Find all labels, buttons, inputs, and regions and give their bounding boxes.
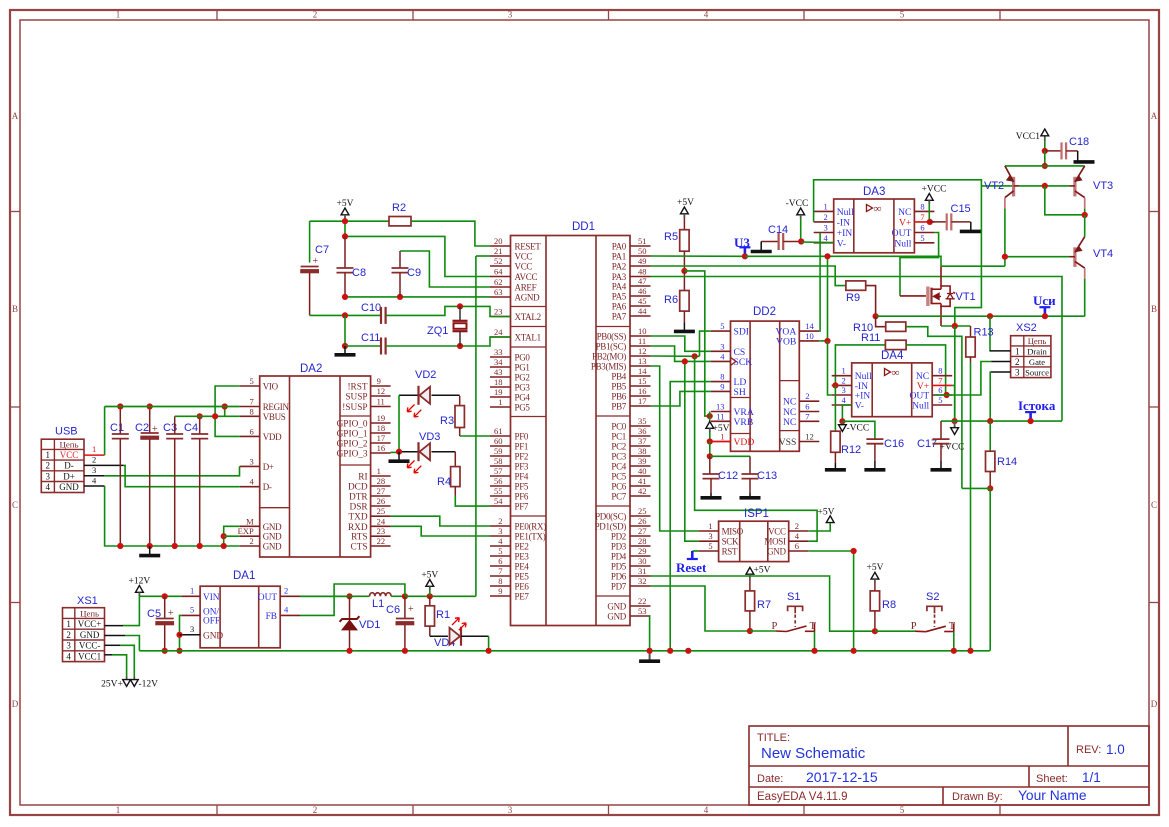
svg-text:62: 62 — [494, 277, 503, 287]
svg-text:4: 4 — [66, 651, 71, 661]
svg-text:∞: ∞ — [874, 203, 882, 215]
power VCC1 — [1041, 129, 1049, 136]
svg-text:C7: C7 — [315, 244, 329, 256]
DD1 pin 37 PC2 — [630, 445, 651, 447]
svg-text:GND: GND — [59, 482, 79, 492]
svg-text:FB: FB — [266, 612, 277, 622]
svg-text:U3: U3 — [734, 235, 750, 250]
DD1 pin 49 PA2 — [630, 265, 651, 267]
svg-text:27: 27 — [638, 526, 647, 536]
DA2 pin 27 DTR — [371, 495, 391, 497]
svg-text:VBUS: VBUS — [263, 412, 286, 422]
svg-text:2: 2 — [498, 516, 502, 526]
VBUS rail — [175, 415, 225, 417]
svg-text:PD0(SC): PD0(SC) — [595, 512, 626, 522]
wire VT3 collector to VT4 emitter — [1084, 215, 1086, 237]
svg-text:52: 52 — [494, 256, 503, 266]
svg-text:C8: C8 — [352, 267, 366, 279]
DD1 pin 44 PA7 — [630, 315, 651, 317]
wire PA3 net — [651, 277, 1063, 421]
svg-text:47: 47 — [638, 276, 647, 286]
svg-text:PA6: PA6 — [612, 302, 627, 312]
DD1 pin 40 PC5 — [630, 475, 651, 477]
USB pin3 D+ wire — [84, 475, 104, 477]
svg-text:1: 1 — [823, 201, 827, 211]
svg-text:GND: GND — [203, 631, 223, 641]
svg-text:PF4: PF4 — [515, 472, 529, 482]
DA4 pin 1 Null — [832, 375, 852, 377]
svg-text:4: 4 — [795, 531, 800, 541]
net flag Reset — [692, 550, 698, 552]
svg-text:DA4: DA4 — [881, 350, 904, 362]
svg-text:D-: D- — [263, 482, 272, 492]
junction DA4 OUT — [944, 392, 950, 398]
svg-text:OUT: OUT — [258, 593, 277, 603]
DD1 pin 62 AREF — [490, 286, 511, 288]
ground below C2 — [149, 546, 151, 554]
capacitor C9 — [399, 251, 401, 268]
svg-text:6: 6 — [920, 223, 924, 233]
DD1 pin 54 PF7 — [490, 505, 511, 507]
DD1 pin 10 PB0(SS) — [630, 335, 651, 337]
svg-text:Your Name: Your Name — [1018, 788, 1087, 803]
svg-text:3: 3 — [92, 465, 96, 475]
svg-text:+5V: +5V — [713, 424, 730, 434]
DD1 pin 41 PC6 — [630, 485, 651, 487]
svg-text:59: 59 — [494, 446, 503, 456]
svg-text:24: 24 — [377, 516, 386, 526]
resistor R6 — [683, 271, 685, 291]
wire R11 right to OUT node — [906, 345, 946, 395]
wire DA4 V+ to +VCC node — [952, 385, 954, 421]
svg-text:S1: S1 — [787, 591, 800, 603]
DA2 pin 26 DSR — [371, 505, 391, 507]
resistor R1 — [429, 596, 431, 606]
regulator DA1 — [200, 586, 280, 648]
svg-text:2: 2 — [1015, 357, 1020, 367]
wire R2 to RESET — [411, 221, 490, 246]
DA3 pin 5 Null — [914, 242, 934, 244]
svg-text:25: 25 — [638, 506, 647, 516]
DA4 amp symbol — [885, 369, 891, 376]
DD1 pin 55 PF6 — [490, 495, 511, 497]
XS2 pin2 Gate wire — [991, 361, 1010, 363]
svg-text:6: 6 — [249, 426, 253, 436]
DD1 pin 63 AGND — [490, 296, 511, 298]
power +5V bottom — [426, 580, 434, 587]
svg-text:-VCC: -VCC — [847, 424, 870, 434]
svg-text:3: 3 — [508, 805, 513, 815]
usb-uart DA2 — [260, 376, 371, 557]
svg-text:34: 34 — [494, 357, 503, 367]
svg-text:22: 22 — [377, 536, 386, 546]
svg-text:49: 49 — [638, 256, 647, 266]
wire DA3 OUT to VT1 gate — [900, 233, 939, 296]
svg-text:26: 26 — [377, 496, 386, 506]
svg-text:RXD: RXD — [348, 523, 368, 533]
svg-text:PB2(MO): PB2(MO) — [592, 352, 626, 362]
DD1 pin 53 GND — [630, 615, 651, 617]
wire R10 right staircase — [906, 327, 962, 489]
svg-text:EXP: EXP — [238, 526, 254, 536]
svg-text:SH: SH — [734, 387, 746, 398]
resistor R10 — [886, 322, 906, 331]
svg-text:2: 2 — [46, 461, 51, 471]
svg-text:SUSP: SUSP — [345, 393, 367, 403]
svg-text:C18: C18 — [1069, 136, 1089, 148]
svg-text:VSS: VSS — [779, 437, 797, 448]
DD1 pin 33 PG0 — [490, 356, 511, 358]
DA4 pin 7 V+ — [932, 384, 952, 386]
svg-text:+5V: +5V — [818, 508, 835, 518]
DA2 pin 11 !SUSP — [371, 406, 391, 408]
svg-text:26: 26 — [638, 516, 647, 526]
wire VT2 collector down — [1004, 209, 1006, 257]
svg-text:Date:: Date: — [757, 773, 783, 785]
svg-text:PF3: PF3 — [515, 462, 529, 472]
DD2 pin 2 NC — [799, 400, 819, 402]
DD1 pin 60 PF1 — [490, 445, 511, 447]
Istoka rail — [955, 420, 1062, 422]
svg-text:-IN: -IN — [837, 217, 850, 228]
svg-text:VD2: VD2 — [415, 369, 436, 381]
DD1 pin 34 PG1 — [490, 366, 511, 368]
wire XTAL2 net — [345, 314, 381, 316]
svg-text:C10: C10 — [361, 302, 381, 314]
DD1 pin 45 PA6 — [630, 305, 651, 307]
resistor R3 — [459, 396, 461, 406]
wire VT2 base tap — [981, 185, 1013, 187]
ISP1 pin 2 VCC — [789, 530, 809, 532]
DA2 pin 4 D- — [240, 486, 260, 488]
svg-text:55: 55 — [494, 486, 503, 496]
DD1 pin 57 PF4 — [490, 475, 511, 477]
DA3 pin 4 V- — [814, 242, 834, 244]
svg-text:GND: GND — [263, 532, 282, 542]
net flag Ucu — [1044, 307, 1047, 316]
DA2 GND pins wires — [224, 526, 240, 546]
DA2 pin 6 VDD — [240, 435, 260, 437]
resistor R9 — [846, 281, 866, 290]
svg-text:PE1(TX): PE1(TX) — [515, 532, 546, 542]
svg-text:PC7: PC7 — [611, 492, 626, 502]
svg-text:PG1: PG1 — [515, 363, 530, 373]
wire PB3 to MISO — [651, 366, 699, 531]
DD1 pin 20 RESET — [490, 245, 511, 247]
svg-text:R14: R14 — [997, 456, 1017, 468]
DD1 pin 4 PE2 — [490, 545, 511, 547]
svg-text:C16: C16 — [884, 438, 904, 450]
DD1 pin 13 PB3(MIS) — [630, 365, 651, 367]
DA2 pin 18 GPIO_1 — [371, 432, 391, 434]
svg-text:5: 5 — [900, 10, 905, 20]
DD1 pin 24 XTAL1 — [490, 336, 511, 338]
svg-text:GPIO_3: GPIO_3 — [337, 450, 368, 460]
svg-text:PG2: PG2 — [515, 373, 530, 383]
svg-text:1: 1 — [66, 619, 71, 629]
+12V rail — [139, 595, 181, 597]
DA3 pin 6 OUT — [914, 232, 934, 234]
svg-text:30: 30 — [638, 556, 647, 566]
ground right of C15 — [970, 222, 972, 230]
XS2 pin3 Source wire — [991, 371, 1011, 373]
DD1 pin 29 PD4 — [630, 555, 651, 557]
svg-text:18: 18 — [377, 423, 386, 433]
svg-text:DD2: DD2 — [753, 306, 776, 318]
connector ISP1 — [719, 521, 789, 561]
svg-text:GND: GND — [263, 542, 282, 552]
DD1 pin 52 VCC — [490, 265, 511, 267]
resistor R12 — [834, 385, 836, 431]
DA2 pin 22 CTS — [371, 545, 391, 547]
svg-text:VT2: VT2 — [984, 180, 1004, 192]
svg-text:C: C — [12, 500, 18, 510]
svg-text:PA4: PA4 — [612, 282, 627, 292]
USB pin1 VCC wire — [84, 454, 105, 456]
wire DD1 GND53 down — [649, 616, 652, 651]
wire VT3 base-collector tie — [1045, 186, 1085, 215]
wire R9 right — [866, 286, 876, 317]
VT1 source down — [940, 306, 942, 326]
power +5V DD2 VDD — [706, 422, 714, 429]
DA3 pin 7 V+ — [914, 221, 934, 223]
svg-text:+5V: +5V — [677, 198, 694, 208]
opamp DA3 — [834, 199, 915, 253]
svg-text:1: 1 — [190, 586, 194, 596]
DD1 pin 23 XTAL2 — [490, 316, 511, 318]
wire DA3 -IN feedback — [814, 180, 982, 326]
svg-text:3: 3 — [1015, 367, 1020, 377]
svg-text:+12V: +12V — [129, 576, 151, 586]
svg-text:17: 17 — [638, 396, 647, 406]
wire VT4 base — [1070, 256, 1075, 258]
svg-text:R12: R12 — [841, 444, 861, 456]
svg-text:48: 48 — [638, 267, 647, 277]
svg-text:PA2: PA2 — [612, 262, 626, 272]
svg-text:3: 3 — [708, 531, 712, 541]
svg-text:VT4: VT4 — [1093, 248, 1113, 260]
Ucu rail — [876, 315, 1085, 317]
DA2 pin 9 !RST — [371, 385, 391, 387]
svg-text:2: 2 — [66, 630, 71, 640]
svg-text:PA0: PA0 — [612, 242, 627, 252]
svg-text:2017-12-15: 2017-12-15 — [806, 769, 878, 785]
DA3 pin 8 NC — [914, 210, 934, 212]
DD1 pin 18 PG3 — [490, 386, 511, 388]
DD2 pin 12 VSS — [799, 441, 819, 443]
svg-text:RI: RI — [358, 473, 367, 483]
svg-text:C11: C11 — [361, 332, 380, 344]
DD1 pin 2 PE0(RX) — [490, 525, 511, 527]
svg-text:9: 9 — [377, 376, 381, 386]
DD2 pin 7 NC — [799, 420, 819, 422]
ground right of C18 — [1077, 151, 1079, 161]
svg-text:25V+: 25V+ — [101, 680, 123, 690]
svg-text:4: 4 — [704, 10, 709, 20]
svg-text:Drawn By:: Drawn By: — [952, 791, 1003, 803]
REGIN wire — [105, 406, 240, 408]
svg-text:1: 1 — [92, 444, 96, 454]
svg-text:VDD: VDD — [734, 437, 755, 448]
svg-text:DA2: DA2 — [300, 363, 322, 375]
DD2 pin 10 VOB — [799, 340, 819, 342]
svg-text:AREF: AREF — [515, 283, 537, 293]
svg-text:32: 32 — [638, 576, 647, 586]
svg-text:PC2: PC2 — [611, 442, 626, 452]
svg-text:1.0: 1.0 — [1106, 742, 1125, 757]
ground left of C14 — [760, 242, 762, 251]
DA3 pin 1 Null — [814, 210, 834, 212]
wire PB2 to SDI — [700, 331, 711, 356]
VT1 drain up to VT2/VT4 node — [940, 266, 942, 286]
svg-text:3: 3 — [720, 341, 724, 351]
svg-text:SCK: SCK — [734, 357, 753, 368]
+5V rail to MCU — [405, 595, 476, 597]
wire OUT node to XS2 Gate — [935, 362, 992, 396]
svg-text:1: 1 — [498, 397, 502, 407]
wire AREF — [400, 251, 490, 287]
svg-text:C: C — [1151, 500, 1157, 510]
svg-text:PF7: PF7 — [515, 502, 529, 512]
svg-text:REGIN: REGIN — [263, 402, 290, 412]
svg-text:23: 23 — [494, 307, 503, 317]
DD1 pin 46 PA5 — [630, 295, 651, 297]
wire PA1 net — [651, 255, 745, 257]
DD1 pin 9 PE7 — [490, 595, 511, 597]
power +12V — [136, 586, 144, 593]
svg-text:VCC: VCC — [60, 450, 79, 460]
svg-text:7: 7 — [249, 397, 253, 407]
svg-text:5: 5 — [249, 376, 253, 386]
svg-text:PG4: PG4 — [515, 393, 531, 403]
svg-text:GND: GND — [607, 602, 626, 612]
svg-text:16: 16 — [638, 386, 647, 396]
resistor R8 — [870, 591, 879, 611]
svg-text:VD3: VD3 — [419, 431, 440, 443]
resistor R5 — [680, 230, 689, 252]
svg-text:PB6: PB6 — [611, 392, 626, 402]
wire DA3 +IN from VOA — [818, 233, 821, 332]
svg-text:Uси: Uси — [1033, 293, 1056, 308]
wire ISP VCC to +5V — [809, 523, 830, 531]
svg-text:VT3: VT3 — [1093, 180, 1113, 192]
svg-text:PE6: PE6 — [515, 582, 530, 592]
svg-text:PF6: PF6 — [515, 492, 529, 502]
svg-text:50: 50 — [638, 246, 647, 256]
svg-text:PB5: PB5 — [611, 382, 626, 392]
DD1 pin 12 PB2(MO) — [630, 355, 651, 357]
wire R10 left — [876, 316, 886, 327]
svg-text:S2: S2 — [926, 591, 939, 603]
XS1 pin1 wire — [105, 625, 124, 627]
wire GPIO_3 to VD3 — [391, 451, 399, 453]
title block — [749, 726, 1149, 805]
XS2 pin1 Drain wire — [990, 350, 1011, 352]
svg-text:53: 53 — [638, 606, 647, 616]
svg-text:D+: D+ — [263, 462, 274, 472]
svg-text:RST: RST — [722, 547, 738, 557]
svg-text:3: 3 — [46, 471, 51, 481]
svg-text:PC5: PC5 — [611, 472, 626, 482]
svg-text:10: 10 — [638, 326, 647, 336]
wire C11 to XTAL1 — [386, 337, 511, 346]
power -VCC DA4 — [841, 421, 843, 425]
svg-text:+: + — [168, 608, 174, 619]
svg-text:C15: C15 — [951, 203, 971, 215]
DA2 pin 23 RTS — [371, 535, 391, 537]
wire VT4 collector to Ucu rail — [1084, 279, 1086, 316]
DA1 pin 2 OUT — [280, 595, 300, 597]
wire to DA3 V- — [801, 241, 834, 244]
svg-text:PE2: PE2 — [515, 542, 529, 552]
svg-text:18: 18 — [494, 377, 503, 387]
svg-text:GND: GND — [263, 522, 282, 532]
svg-text:3: 3 — [190, 624, 194, 634]
svg-text:PD3: PD3 — [611, 542, 627, 552]
svg-text:DTR: DTR — [349, 493, 368, 503]
svg-text:PG5: PG5 — [515, 403, 531, 413]
wire R13 top — [970, 326, 972, 337]
svg-text:C13: C13 — [757, 470, 777, 482]
svg-text:Цепь: Цепь — [80, 608, 99, 618]
wire R14 bottom to R10 — [962, 487, 990, 489]
DD1 pin 51 PA0 — [630, 245, 651, 247]
DA2 pin 19 GPIO_0 — [371, 422, 391, 424]
VIO wire — [215, 386, 240, 436]
svg-text:54: 54 — [494, 496, 503, 506]
power 25V+ arrow — [123, 680, 131, 687]
svg-text:33: 33 — [494, 347, 503, 357]
svg-text:NC: NC — [783, 417, 796, 428]
ground below C11 — [344, 346, 346, 354]
svg-text:10: 10 — [805, 331, 814, 341]
svg-text:PD7: PD7 — [611, 582, 627, 592]
svg-text:7: 7 — [498, 566, 502, 576]
svg-text:58: 58 — [494, 456, 503, 466]
svg-text:PA7: PA7 — [612, 312, 627, 322]
svg-text:1: 1 — [116, 805, 121, 815]
DD1 pin 43 PG2 — [490, 376, 511, 378]
svg-text:XS1: XS1 — [77, 595, 98, 607]
DD1 pin 17 PB7 — [630, 405, 651, 407]
svg-text:C4: C4 — [184, 422, 198, 434]
wire VT2 base — [1014, 185, 1019, 187]
svg-text:DA1: DA1 — [233, 570, 255, 582]
DA2 pin 17 GPIO_2 — [371, 442, 391, 444]
svg-text:TXD: TXD — [348, 513, 367, 523]
svg-text:1: 1 — [708, 521, 712, 531]
DD1 pin 39 PC4 — [630, 465, 651, 467]
DD1 pin 32 PD7 — [630, 585, 651, 587]
svg-text:∞: ∞ — [892, 367, 900, 379]
wire PB0 to CS — [651, 336, 711, 351]
DA4 pin 2 -IN — [832, 384, 852, 386]
svg-text:B: B — [1151, 304, 1157, 314]
svg-text:Drain: Drain — [1027, 346, 1047, 356]
power +VCC DA4 — [954, 421, 956, 428]
DA2 pin 12 SUSP — [371, 395, 391, 397]
svg-text:1: 1 — [377, 466, 381, 476]
svg-text:2: 2 — [313, 805, 318, 815]
svg-text:PF2: PF2 — [515, 452, 529, 462]
svg-text:VIO: VIO — [263, 382, 279, 392]
svg-text:25: 25 — [377, 506, 386, 516]
ground below C17 — [940, 461, 942, 469]
svg-text:2: 2 — [841, 375, 845, 385]
ISP1 pin 1 MISO — [699, 530, 719, 532]
svg-text:21: 21 — [494, 246, 503, 256]
DA2 pin 7 REGIN — [240, 406, 260, 408]
